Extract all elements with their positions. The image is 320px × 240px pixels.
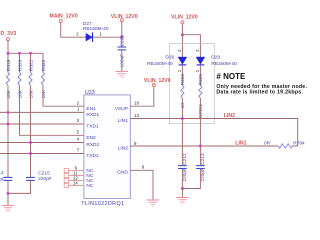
wire RXD2 row xyxy=(0,142,84,144)
wire TXD1 row xyxy=(0,123,84,125)
svg-text:VLIN_12V0: VLIN_12V0 xyxy=(144,78,171,84)
svg-text:3: 3 xyxy=(77,118,80,123)
junction dot C214/C215 ground node xyxy=(7,192,10,195)
junction dot bus/R319 xyxy=(7,52,10,55)
svg-text:TXD1: TXD1 xyxy=(86,124,99,130)
svg-text:4: 4 xyxy=(77,137,80,142)
ground bottom-left xyxy=(2,206,15,212)
resistor R320 xyxy=(17,59,23,98)
svg-text:R325: R325 xyxy=(198,74,204,86)
resistor R323 xyxy=(180,74,186,109)
svg-text:0R: 0R xyxy=(264,141,271,147)
junction dot LIN2/R323 xyxy=(181,117,184,120)
wire bus drop to R322 xyxy=(42,53,44,72)
wire bus drop to R321 xyxy=(30,53,32,72)
ground at GND pin xyxy=(147,200,160,206)
capacitor C212 xyxy=(178,153,188,182)
svg-text:RB160M-40: RB160M-40 xyxy=(211,61,237,67)
svg-text:R320: R320 xyxy=(17,59,23,71)
wire D28 to R323 xyxy=(181,65,183,85)
wire VLIN to diodes xyxy=(181,24,183,35)
wire RXD1 row xyxy=(0,111,84,113)
svg-text:8: 8 xyxy=(142,165,145,170)
wire VLIN stem xyxy=(121,22,123,38)
wire R323 down to C212 xyxy=(181,98,183,165)
wire C208 to ground xyxy=(121,50,123,71)
svg-text:Data rate is limited to 19.2kb: Data rate is limited to 19.2kbps. xyxy=(216,89,303,95)
svg-text:GND: GND xyxy=(117,170,128,176)
wire node to C208 xyxy=(121,37,123,47)
svg-text:2: 2 xyxy=(195,49,200,52)
capacitor C214 xyxy=(0,170,12,182)
power flag MAIN_12V0 xyxy=(50,14,86,38)
wire R325 down to C213 xyxy=(199,98,201,165)
pin 6 NC xyxy=(64,168,68,172)
svg-text:2: 2 xyxy=(77,100,80,105)
pin 11 NC xyxy=(64,173,68,177)
resistor R784 0R xyxy=(264,141,305,149)
svg-text:RXD1: RXD1 xyxy=(86,112,99,118)
junction dot bus/R320 xyxy=(18,52,21,55)
svg-text:RB160M-40: RB160M-40 xyxy=(83,26,109,32)
power flag VLIN_12V0 (above D28/D29) xyxy=(171,14,198,34)
wire to ground xyxy=(181,189,183,198)
svg-text:NC: NC xyxy=(86,183,93,189)
svg-text:LIN2: LIN2 xyxy=(224,113,235,119)
pin 12 NC xyxy=(64,178,68,182)
junction dot TXD1/C214 column xyxy=(7,123,10,126)
IC U23 TLIN1022DRQ1 xyxy=(81,90,130,207)
diode D29 xyxy=(195,49,237,72)
capacitor C215 xyxy=(26,170,52,182)
resistor R319 xyxy=(6,59,12,98)
svg-text:13: 13 xyxy=(134,113,139,118)
svg-text:EN1: EN1 xyxy=(86,106,96,112)
wire PD_3V3 stem xyxy=(7,41,9,54)
svg-text:# NOTE: # NOTE xyxy=(216,72,246,81)
wire jog to D29 xyxy=(182,35,200,57)
svg-text:VSUP: VSUP xyxy=(115,106,128,112)
svg-text:OPEN: OPEN xyxy=(198,104,204,118)
svg-text:14: 14 xyxy=(73,180,78,185)
junction dot LIN1/R325 xyxy=(199,145,202,148)
svg-text:R784: R784 xyxy=(293,141,305,147)
wire LIN2 net xyxy=(130,119,297,147)
svg-text:R319: R319 xyxy=(6,59,12,71)
wire GND pin to ground xyxy=(130,170,153,200)
svg-text:VLIN_12V0: VLIN_12V0 xyxy=(171,14,198,20)
svg-text:C214: C214 xyxy=(0,170,4,176)
resistor R321 xyxy=(28,59,34,98)
capacitor C208 xyxy=(118,35,126,68)
wire R321 down through RXD2/TXD2 to C215 xyxy=(30,86,32,178)
svg-text:C213: C213 xyxy=(200,153,206,165)
wire VSUP to VLIN flag xyxy=(130,87,154,107)
svg-text:LIN2: LIN2 xyxy=(118,146,128,152)
svg-text:C215: C215 xyxy=(38,170,50,176)
svg-text:1: 1 xyxy=(177,69,182,72)
resistor R325 xyxy=(198,74,204,118)
svg-text:10K: 10K xyxy=(17,89,23,98)
power flag VLIN_12V0 (top, at C208) xyxy=(111,14,138,37)
wire bus drop to R319 xyxy=(7,53,9,72)
svg-text:TLIN1022DRQ1: TLIN1022DRQ1 xyxy=(81,201,124,207)
svg-text:PD_3V3: PD_3V3 xyxy=(0,31,16,37)
wire R320 to EN2 pin5 xyxy=(20,86,85,136)
svg-text:R321: R321 xyxy=(28,59,34,71)
svg-text:LIN1: LIN1 xyxy=(235,141,246,147)
svg-text:100nF: 100nF xyxy=(119,54,125,68)
wire C213 down and left xyxy=(182,169,200,189)
ground under C208 xyxy=(116,72,129,78)
svg-text:EN2: EN2 xyxy=(86,135,96,141)
svg-text:10K: 10K xyxy=(41,89,47,98)
wire D29 to R325 xyxy=(199,65,201,85)
svg-text:R323: R323 xyxy=(180,74,186,86)
svg-text:R322: R322 xyxy=(41,59,47,71)
svg-text:C212: C212 xyxy=(182,153,188,165)
svg-text:VLIN_12V0: VLIN_12V0 xyxy=(111,14,138,20)
svg-text:2: 2 xyxy=(76,32,79,37)
power flag PD_3V3 xyxy=(0,31,16,53)
gray note box xyxy=(170,44,215,124)
svg-text:RB160M-40: RB160M-40 xyxy=(147,61,173,67)
svg-text:7: 7 xyxy=(77,148,80,153)
capacitor C213 xyxy=(196,153,206,182)
ground under C212/C213 xyxy=(176,198,189,204)
wire TXD2 row xyxy=(0,153,84,155)
svg-text:1: 1 xyxy=(77,107,80,112)
diode D27 xyxy=(76,21,109,42)
junction dot bus/R321 xyxy=(29,52,32,55)
svg-text:10: 10 xyxy=(134,101,139,106)
wire C214 to ground junction xyxy=(7,181,9,194)
wire D27 cathode to C208 node xyxy=(93,36,122,38)
pin 14 NC xyxy=(64,183,68,187)
wire C212 to ground junction xyxy=(181,169,183,189)
svg-text:TXD2: TXD2 xyxy=(86,153,99,159)
svg-text:220pF: 220pF xyxy=(38,176,52,182)
diode D28 xyxy=(147,49,187,72)
junction dot RXD2/R321 xyxy=(29,141,32,144)
wire bus drop to R320 xyxy=(19,53,21,72)
svg-text:1K: 1K xyxy=(180,102,186,109)
junction dot RXD1/R319 xyxy=(7,111,10,114)
svg-text:RXD2: RXD2 xyxy=(86,142,99,148)
wire to ground xyxy=(7,193,9,205)
svg-text:MAIN_12V0: MAIN_12V0 xyxy=(50,14,78,20)
svg-text:D29: D29 xyxy=(211,54,220,60)
svg-text:LIN1: LIN1 xyxy=(118,118,128,124)
node dot at C208 xyxy=(120,36,123,39)
svg-text:D28: D28 xyxy=(165,54,174,60)
wire to D28 xyxy=(181,35,183,57)
wire LIN1 net xyxy=(130,145,278,147)
svg-text:1: 1 xyxy=(195,69,200,72)
wire C215 down and left xyxy=(8,181,31,194)
svg-text:C208: C208 xyxy=(119,35,125,47)
resistor R322 xyxy=(41,59,47,98)
svg-text:5: 5 xyxy=(77,129,80,134)
junction dot C212/C213 ground node xyxy=(181,187,184,190)
svg-text:9: 9 xyxy=(134,141,137,146)
junction dot TXD2/C215 column xyxy=(29,152,32,155)
wire R322 to EN1 pin2 xyxy=(43,86,84,107)
node dot above D28 xyxy=(181,33,184,36)
wire R319 down through RXD1/TXD1 to C214 xyxy=(7,86,9,178)
svg-text:2: 2 xyxy=(177,49,182,52)
wire MAIN_12V0 down xyxy=(61,22,86,37)
svg-text:10K: 10K xyxy=(6,89,12,98)
svg-text:10K: 10K xyxy=(28,89,34,98)
top bus wire PD_3V3 to resistors xyxy=(8,52,43,54)
